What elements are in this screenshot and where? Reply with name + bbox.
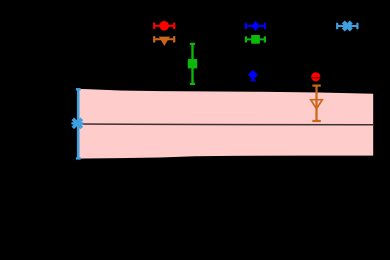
green errorbar (data point)	[190, 44, 195, 84]
sky-blue errorbar (left data point)	[71, 89, 83, 158]
blue diamond marker	[248, 70, 258, 80]
legend entry: orange filled down-triangle with xerr bar	[154, 36, 174, 42]
legend entry: green square with xerr bar	[246, 36, 265, 42]
orange open down-triangle marker	[311, 100, 323, 109]
red circle marker (data point)	[311, 72, 320, 81]
legend entry: red circle with xerr bar	[154, 23, 174, 29]
dark-red xerr line across red circle	[311, 77, 320, 79]
sky-blue X marker (left data point)	[73, 119, 82, 128]
blue errorbar (small, data point)	[250, 71, 255, 81]
legend entry: blue diamond with xerr bar	[246, 23, 265, 29]
pink confidence band	[79, 89, 374, 159]
green square marker	[188, 59, 197, 68]
legend entry: sky-blue thick X with xerr bar	[337, 23, 357, 29]
central fit line	[79, 123, 373, 126]
orange upper-limit errorbar	[312, 86, 320, 121]
